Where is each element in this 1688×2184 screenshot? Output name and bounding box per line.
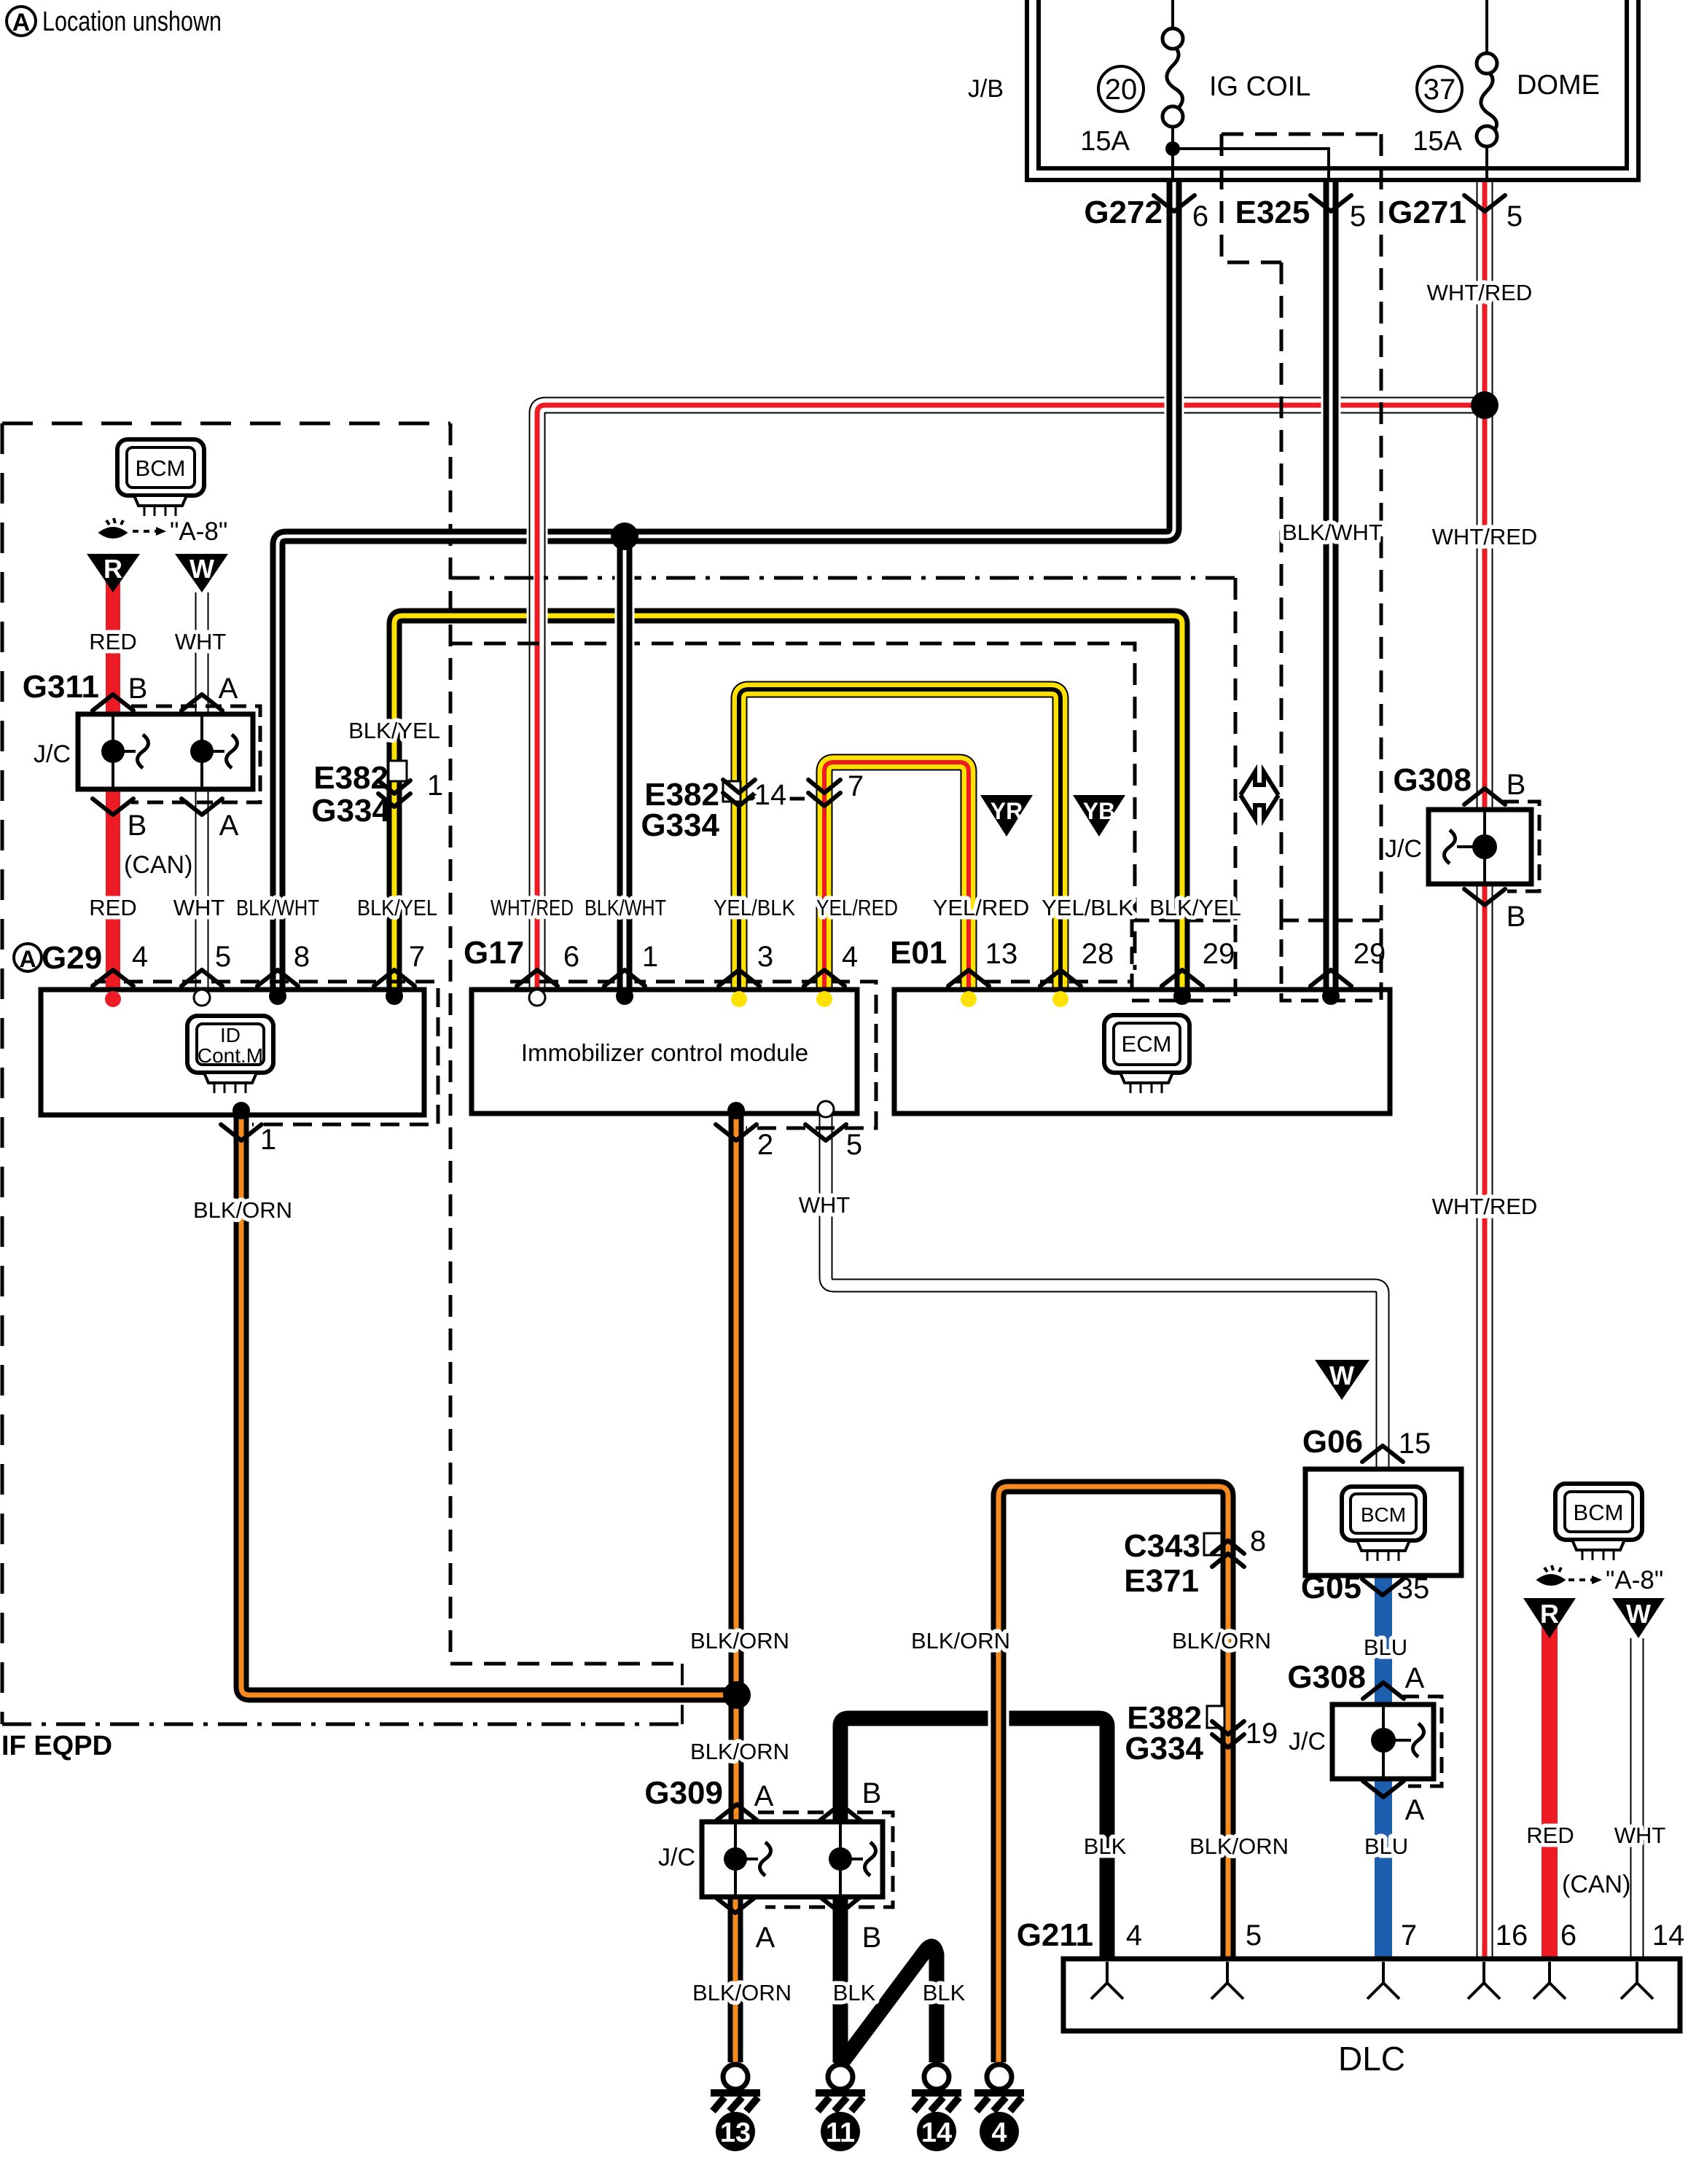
svg-text:A: A <box>754 1780 774 1812</box>
cap G29 pin5 WHT <box>194 990 210 1006</box>
svg-text:5: 5 <box>846 1129 862 1161</box>
svg-text:(CAN): (CAN) <box>1562 1871 1630 1898</box>
chevron Immobilizer pin5 <box>805 1124 846 1140</box>
G308#1 connector dashed <box>1503 802 1539 891</box>
svg-text:BLK/YEL: BLK/YEL <box>1149 895 1241 920</box>
cap E01 pin29b <box>1322 987 1340 1005</box>
connector square E382 pin1 <box>388 761 407 781</box>
svg-text:4: 4 <box>991 2118 1007 2148</box>
svg-text:8: 8 <box>294 941 310 973</box>
G311 connector dashed <box>131 706 260 802</box>
chevron G29 pin <box>181 970 222 986</box>
wire fuse37 top lead <box>1485 0 1488 54</box>
chevron G29 pin <box>93 970 133 986</box>
chevron G309 top B <box>820 1804 861 1820</box>
eye symbol 1 <box>101 518 125 537</box>
ground 14 <box>912 2064 961 2151</box>
svg-text:19: 19 <box>1246 1718 1278 1750</box>
svg-text:YEL/BLK: YEL/BLK <box>714 895 795 920</box>
svg-text:G308: G308 <box>1393 762 1472 798</box>
G308 #1 J/C box <box>1429 810 1531 884</box>
svg-text:1: 1 <box>642 941 658 973</box>
connector square E382 pin14 <box>723 781 741 802</box>
corridor dashed y=2283 <box>450 1662 682 1666</box>
wire BLK/ORN Immobilizer-2 down to junction and G309-A <box>727 1113 746 1822</box>
svg-text:G334: G334 <box>311 793 390 829</box>
svg-text:37: 37 <box>1423 74 1456 106</box>
svg-text:G29: G29 <box>42 940 102 976</box>
wire BLK diagonal ground11 to ground 14 <box>839 1946 937 2067</box>
BCM icon 1 <box>117 439 204 516</box>
svg-text:BLK/ORN: BLK/ORN <box>690 1628 789 1653</box>
svg-text:1: 1 <box>427 770 443 802</box>
wire WHT/RED G271-5 down to DLC-16 <box>1474 181 1496 1959</box>
J/B internal thin wires <box>1173 0 1487 181</box>
svg-text:RED: RED <box>1526 1823 1574 1848</box>
cap G29 pin4 RED <box>105 991 121 1007</box>
cap G17 pin4 YEL <box>816 991 832 1007</box>
svg-text:6: 6 <box>1560 1919 1576 1952</box>
svg-text:BCM: BCM <box>1574 1500 1624 1525</box>
svg-text:BLK/ORN: BLK/ORN <box>1172 1628 1271 1653</box>
double chevron E382/G334 pin14 <box>723 793 755 806</box>
svg-text:BLK: BLK <box>1084 1833 1127 1859</box>
svg-text:G308: G308 <box>1287 1659 1366 1695</box>
wire fuse20 bottom lead to junction and box bottom <box>1171 126 1174 181</box>
G29 connector dashed <box>95 982 438 1124</box>
svg-text:"A-8": "A-8" <box>1606 1566 1663 1594</box>
svg-text:IG COIL: IG COIL <box>1209 71 1310 102</box>
svg-text:RED: RED <box>89 629 136 654</box>
svg-text:WHT/RED: WHT/RED <box>491 895 574 920</box>
svg-text:29: 29 <box>1203 938 1235 970</box>
chevron Immobilizer pin2 <box>716 1124 757 1140</box>
cap E01 pin28 YEL <box>1052 991 1068 1007</box>
chevron G311 top <box>181 694 222 711</box>
svg-text:BLK/ORN: BLK/ORN <box>911 1628 1010 1653</box>
wire BLK G309-B to ground 11 <box>833 1897 848 2062</box>
svg-text:4: 4 <box>842 941 858 973</box>
svg-text:28: 28 <box>1082 938 1114 970</box>
corridor x=1695 <box>1234 578 1238 920</box>
svg-text:BLK/ORN: BLK/ORN <box>193 1197 292 1223</box>
svg-text:E01: E01 <box>890 935 947 971</box>
svg-text:R: R <box>103 554 122 584</box>
svg-text:15A: 15A <box>1080 126 1130 157</box>
svg-text:G271: G271 <box>1388 195 1466 230</box>
G308#1 J/C internals <box>1445 812 1485 882</box>
DLC pin Y symbols <box>1091 1962 1653 1999</box>
chevron J/B pin <box>1310 195 1351 211</box>
wire BLK/ORN G309-A to ground 13 <box>728 1897 743 2062</box>
E01 connector dashed <box>953 980 1132 984</box>
svg-text:7: 7 <box>409 941 425 973</box>
wire WHT/RED horizontal branch to G17-6 <box>537 405 1485 997</box>
svg-text:G272: G272 <box>1084 195 1163 230</box>
svg-text:1: 1 <box>260 1124 276 1156</box>
wire BLK/WHT E325-5 to E01-29b <box>1321 181 1341 995</box>
svg-text:B: B <box>862 1777 882 1809</box>
svg-text:BLK/WHT: BLK/WHT <box>585 895 666 920</box>
svg-text:R: R <box>1540 1599 1559 1629</box>
svg-text:J/B: J/B <box>968 75 1004 103</box>
svg-text:Cont.M: Cont.M <box>198 1044 263 1067</box>
IF EQPD right connector piece <box>681 1664 684 1724</box>
svg-text:B: B <box>128 810 147 842</box>
svg-text:13: 13 <box>720 2118 751 2148</box>
wire BLK/YEL G29-7 to E01-29a <box>394 616 1182 995</box>
cap Immobilizer pin2 <box>727 1102 745 1119</box>
circled A G29 <box>14 944 42 971</box>
svg-text:ID: ID <box>220 1024 241 1046</box>
chevron G17 pin <box>804 970 845 986</box>
svg-text:A: A <box>1405 1794 1425 1826</box>
svg-text:BLK/ORN: BLK/ORN <box>1189 1833 1289 1859</box>
triangle R2 <box>1523 1598 1576 1638</box>
chevron G17 pin <box>517 970 558 986</box>
wire WHT from W triangle to G29-5 <box>195 592 209 997</box>
wire BLK/ORN ID-1 down and right to junction <box>241 1113 737 1695</box>
svg-text:J/C: J/C <box>34 740 71 768</box>
double chevron C343/E371 pin8 <box>1212 1541 1244 1554</box>
svg-text:29: 29 <box>1353 938 1386 970</box>
cap G29 pin7 <box>386 987 403 1005</box>
chevron E01 pin <box>1310 970 1351 986</box>
svg-text:G06: G06 <box>1302 1424 1363 1460</box>
svg-text:G334: G334 <box>1125 1731 1203 1766</box>
svg-text:B: B <box>862 1922 882 1954</box>
svg-text:G311: G311 <box>23 669 99 705</box>
chevron J/B pin <box>1464 195 1505 211</box>
svg-text:WHT/RED: WHT/RED <box>1427 280 1533 305</box>
svg-text:YEL/RED: YEL/RED <box>816 895 898 920</box>
svg-text:J/C: J/C <box>1289 1728 1326 1756</box>
svg-text:5: 5 <box>1350 200 1366 232</box>
ground 4 <box>974 2064 1024 2151</box>
BCM icon G06 box <box>1342 1487 1425 1561</box>
chevron E01 pin <box>948 970 989 986</box>
wire WHT Immobilizer-5 to BCM G06-15 <box>826 1111 1383 1469</box>
chevron G311 bottom <box>181 799 222 815</box>
chevron E01 pin <box>1040 970 1081 986</box>
chevron G311 top <box>93 694 133 711</box>
Immobilizer control module box <box>472 990 857 1113</box>
triangle W2 <box>1612 1598 1665 1638</box>
svg-text:2: 2 <box>757 1129 773 1161</box>
double chevron E382/G334 pin1 <box>378 794 410 807</box>
svg-text:WHT: WHT <box>799 1192 851 1218</box>
wire BLK/WHT G272-6 vertical overlay <box>1165 181 1184 528</box>
triangle W G06 <box>1315 1360 1369 1400</box>
G311 J/C internals <box>113 716 238 787</box>
svg-text:3: 3 <box>757 941 773 973</box>
svg-text:DLC: DLC <box>1338 2040 1405 2078</box>
svg-text:Location unshown: Location unshown <box>42 7 222 37</box>
chevron G17 pin <box>604 970 645 986</box>
svg-text:G334: G334 <box>641 807 719 843</box>
svg-text:35: 35 <box>1397 1573 1430 1605</box>
wire YEL/BLK U G17-3 to E01-28 <box>739 689 1060 997</box>
fuse number 37 <box>1417 66 1462 111</box>
svg-text:E382: E382 <box>313 760 388 796</box>
svg-text:14: 14 <box>1652 1919 1685 1952</box>
svg-text:Immobilizer control module: Immobilizer control module <box>521 1039 808 1066</box>
svg-text:4: 4 <box>132 941 148 973</box>
wire YEL/RED U G17-4 to E01-13 <box>824 762 969 997</box>
svg-text:YEL/RED: YEL/RED <box>933 895 1030 920</box>
small dashed box pin29b over ECM <box>1281 920 1381 1001</box>
svg-text:J/C: J/C <box>658 1844 695 1871</box>
corridor dashed vertical x=618 <box>449 423 453 1664</box>
svg-text:"A-8": "A-8" <box>170 517 227 546</box>
junction dot WHT/RED split <box>1471 391 1499 419</box>
double chevron E382/G334 pin7 <box>808 793 840 806</box>
G309 J/C internals <box>735 1824 876 1895</box>
svg-text:A: A <box>219 810 239 842</box>
svg-text:YEL/BLK: YEL/BLK <box>1042 895 1133 920</box>
svg-text:14: 14 <box>921 2118 952 2148</box>
svg-text:7: 7 <box>1401 1919 1417 1952</box>
G309 connector dashed <box>758 1812 893 1907</box>
svg-text:11: 11 <box>826 2118 855 2148</box>
chevron G309 top A <box>716 1804 757 1820</box>
wire BLU BCM G05-35 to DLC-7 <box>1375 1576 1392 1959</box>
small dashed box pin29a over ECM <box>1132 920 1235 1001</box>
cap G17 pin3 YEL <box>731 991 747 1007</box>
junction dot BLK/ORN <box>723 1681 751 1709</box>
svg-text:ECM: ECM <box>1122 1031 1172 1057</box>
G311 J/C box <box>78 714 253 789</box>
svg-text:G309: G309 <box>644 1775 723 1811</box>
svg-text:5: 5 <box>1507 200 1523 232</box>
svg-text:B: B <box>1507 769 1526 801</box>
chevron G309 bottom B <box>820 1897 861 1913</box>
svg-text:A: A <box>219 673 238 705</box>
svg-text:B: B <box>128 673 148 705</box>
svg-text:A: A <box>19 946 36 972</box>
svg-text:W: W <box>189 554 214 584</box>
svg-text:J/C: J/C <box>1385 835 1422 863</box>
connector square E382 pin19 <box>1207 1706 1224 1728</box>
svg-text:BLK/ORN: BLK/ORN <box>690 1739 789 1764</box>
chevron G29 pin <box>257 970 298 986</box>
wire fuse37 bottom lead <box>1485 146 1488 181</box>
wire BLK/WHT G17-1 from junction <box>615 536 635 995</box>
svg-text:E325: E325 <box>1235 195 1310 230</box>
J/B junction box <box>1027 0 1638 180</box>
svg-text:A: A <box>1405 1662 1425 1694</box>
svg-text:BLK: BLK <box>833 1980 876 2005</box>
BCM icon right <box>1555 1484 1642 1560</box>
circled A location <box>7 7 36 36</box>
chevron E01 pin <box>1162 970 1203 986</box>
cap E01 pin29a <box>1173 987 1191 1005</box>
BCM G06/G05 box <box>1305 1469 1461 1576</box>
DLC box <box>1063 1959 1680 2031</box>
svg-text:IF EQPD: IF EQPD <box>1 1731 112 1761</box>
chevron J/B pin <box>1154 195 1195 211</box>
svg-text:BLK: BLK <box>923 1980 966 2005</box>
fuse DOME symbol <box>1477 53 1497 146</box>
big middle dashed rect <box>450 643 1135 970</box>
svg-text:BCM: BCM <box>136 455 186 481</box>
wire BLK/WHT horizontal G272-6 to G29-8 <box>278 181 1174 995</box>
svg-text:BLK/WHT: BLK/WHT <box>1282 520 1383 545</box>
ECM icon <box>1104 1015 1189 1093</box>
svg-text:W: W <box>1329 1361 1354 1390</box>
IF EQPD dash-dot y=793 <box>450 576 1235 580</box>
svg-text:14: 14 <box>754 779 787 811</box>
svg-text:BLK/YEL: BLK/YEL <box>357 895 437 920</box>
svg-text:WHT/RED: WHT/RED <box>1432 1194 1538 1219</box>
cap E01 pin13 YEL <box>961 991 977 1007</box>
triangle YB <box>1073 795 1125 837</box>
double arrow symbol <box>1240 772 1278 818</box>
svg-text:BLU: BLU <box>1364 1635 1407 1660</box>
chevron G308-1 bottom <box>1464 889 1505 905</box>
chevron G308-2 top <box>1363 1683 1404 1699</box>
eye dashed arrow 2 <box>1568 1578 1592 1581</box>
E382/G334 14-7 dashed link <box>739 797 824 801</box>
corridor x=1895 <box>1380 134 1383 920</box>
svg-text:E371: E371 <box>1124 1563 1199 1599</box>
ECM box <box>894 990 1390 1113</box>
svg-text:16: 16 <box>1496 1919 1528 1952</box>
ID Cont.M box <box>41 990 424 1115</box>
svg-text:BLU: BLU <box>1364 1833 1408 1859</box>
svg-text:DOME: DOME <box>1517 70 1600 101</box>
ID Cont.M icon <box>187 1016 273 1093</box>
svg-text:6: 6 <box>563 941 579 973</box>
triangle R <box>87 554 140 592</box>
chevron G17 pin <box>719 970 759 986</box>
chevron G308-2 bottom <box>1363 1781 1404 1797</box>
svg-text:5: 5 <box>1246 1919 1262 1952</box>
wire BLK/ORN upside-down U C343 to ground 4 and DLC-5 <box>999 1487 1228 2062</box>
ground 11 <box>816 2064 865 2151</box>
svg-text:WHT: WHT <box>173 895 225 920</box>
svg-text:WHT: WHT <box>1614 1823 1666 1848</box>
cap G17 pin6 WHT/RED <box>529 990 545 1006</box>
svg-text:A: A <box>12 9 31 36</box>
double chevron E382/G334 pin19 <box>1212 1734 1244 1747</box>
junction dot BLK/WHT split <box>611 522 638 550</box>
svg-text:8: 8 <box>1250 1525 1266 1557</box>
eye dashed arrow 1 <box>133 530 156 533</box>
svg-text:BLK/ORN: BLK/ORN <box>692 1980 792 2005</box>
svg-text:6: 6 <box>1192 200 1208 232</box>
svg-text:B: B <box>1507 901 1526 933</box>
cap G29 pin8 <box>269 987 286 1005</box>
svg-text:YB: YB <box>1083 798 1115 824</box>
svg-text:20: 20 <box>1105 74 1138 106</box>
svg-text:BCM: BCM <box>1361 1503 1406 1526</box>
svg-text:G17: G17 <box>464 935 524 971</box>
E325 dashed box top <box>1222 133 1381 136</box>
corridor x=1758 <box>1280 262 1283 920</box>
wire WHT from W triangle to DLC-14 <box>1630 1638 1644 1959</box>
chevron G05 pin35 <box>1362 1579 1403 1595</box>
svg-text:G211: G211 <box>1017 1917 1093 1953</box>
triangle YR <box>980 795 1033 837</box>
svg-text:15A: 15A <box>1412 126 1462 157</box>
cap G17 pin1 <box>616 987 633 1005</box>
IF EQPD border top <box>2 422 450 426</box>
chevron G311 bottom <box>93 799 133 815</box>
svg-text:4: 4 <box>1126 1919 1142 1952</box>
chevron G309 bottom A <box>715 1897 756 1913</box>
G308#2 connector dashed <box>1403 1696 1442 1786</box>
svg-text:BLK/YEL: BLK/YEL <box>348 718 440 743</box>
wire fuse20 top lead <box>1171 0 1174 29</box>
fuse number 20 <box>1098 66 1144 111</box>
svg-text:15: 15 <box>1399 1428 1431 1460</box>
IF EQPD dash-dot border left <box>1 423 4 1724</box>
cap Immobilizer pin5 WHT <box>818 1101 834 1117</box>
svg-text:13: 13 <box>985 938 1018 970</box>
connector square C343 pin8 <box>1204 1533 1222 1555</box>
chevron G29 pin <box>374 970 415 986</box>
svg-text:A: A <box>756 1922 775 1954</box>
cap ID pin1 <box>233 1102 250 1119</box>
chevron ID pin1 <box>221 1124 262 1140</box>
chevron G308-1 top <box>1464 788 1505 805</box>
chevrons top-row connectors <box>93 195 1505 1913</box>
IF EQPD bottom dash-dot <box>2 1723 682 1726</box>
wire branch to E325 <box>1173 149 1329 181</box>
ground 13 <box>711 2064 760 2151</box>
fuse IG COIL symbol <box>1163 28 1183 127</box>
svg-text:7: 7 <box>848 770 864 802</box>
svg-text:5: 5 <box>215 941 231 973</box>
wire BLK G309-B up right down to DLC-4 <box>840 1718 1107 1959</box>
G309 J/C box <box>702 1822 883 1897</box>
svg-text:RED: RED <box>89 895 136 920</box>
G308#2 J/C internals <box>1383 1707 1424 1777</box>
svg-text:BLK/WHT: BLK/WHT <box>236 895 319 920</box>
G308 #2 J/C box <box>1332 1704 1434 1779</box>
eye symbol 2 <box>1539 1565 1563 1584</box>
chevron G06 pin15 <box>1362 1446 1403 1462</box>
svg-text:G05: G05 <box>1301 1570 1361 1605</box>
svg-text:(CAN): (CAN) <box>124 851 192 879</box>
wire RED R2 to DLC-6 <box>1542 1621 1558 1959</box>
svg-text:C343: C343 <box>1124 1528 1200 1564</box>
svg-text:YR: YR <box>990 798 1023 824</box>
wire RED BCM to G29-4 <box>106 576 120 998</box>
svg-text:WHT: WHT <box>175 629 227 654</box>
junction dot fuse20 <box>1165 141 1180 156</box>
svg-text:W: W <box>1626 1599 1651 1629</box>
triangle W <box>175 554 228 592</box>
G17 connector dashed <box>510 982 876 1128</box>
svg-text:WHT/RED: WHT/RED <box>1432 524 1538 549</box>
